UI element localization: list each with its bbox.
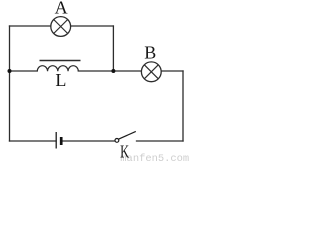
battery (cell): short thick negative plate (60, 137, 63, 145)
wire branch column A-to-middle (112, 26, 114, 71)
switch K pivot circle (115, 139, 119, 143)
inductor L coil (37, 66, 78, 72)
svg-text:A: A (55, 0, 68, 18)
wire switch to right column (137, 140, 184, 142)
switch K blade (119, 131, 136, 139)
junction node left (8, 69, 12, 73)
svg-text:B: B (144, 42, 156, 62)
junction node middle (111, 69, 115, 73)
wire bottom left (to battery) (10, 140, 57, 142)
inductor L (iron core line) (40, 60, 81, 62)
battery (cell): long positive plate (55, 132, 57, 149)
svg-text:K: K (120, 142, 129, 161)
svg-text:manfen5.com: manfen5.com (120, 153, 189, 161)
wire middle to lamp B (113, 70, 183, 72)
wire middle right (coil to junction) (78, 70, 113, 72)
svg-text:L: L (55, 70, 66, 90)
wire left column (9, 26, 11, 141)
wire middle left (junction to coil) (10, 70, 38, 72)
wire top (node between battery + and lamp A / branch) (10, 25, 114, 27)
wire battery to switch (63, 140, 115, 142)
wire right column (182, 71, 184, 141)
lamp A (51, 17, 71, 37)
lamp B (141, 62, 161, 82)
